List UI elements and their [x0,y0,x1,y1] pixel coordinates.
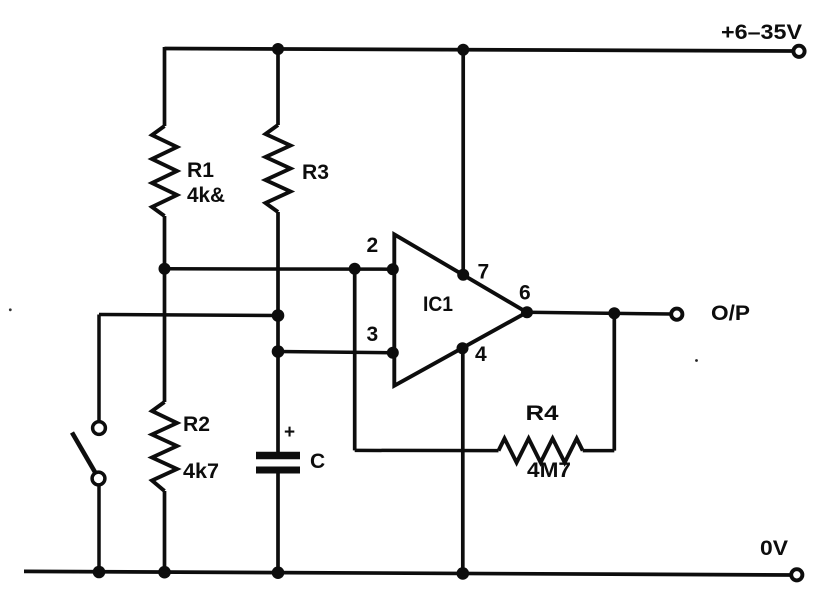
junction pin7 at IC1 [457,269,469,281]
resistor R4 [499,439,583,463]
wire R1 top lead [163,47,167,126]
wire R2 bottom lead [163,491,167,573]
resistor R1 [152,126,177,216]
wire node to pin3 row [276,316,280,352]
svg-text:4M7: 4M7 [527,459,571,482]
junction output R4 [608,307,620,319]
switch lever [72,433,96,474]
wire switch lower lead [97,485,101,573]
wire +V top rail [165,49,794,52]
switch upper contact [93,422,106,435]
junction bottom rail pin4 [457,567,470,580]
wire R4 branch vertical [353,269,357,451]
svg-text:4: 4 [475,343,487,366]
svg-text:O/P: O/P [711,302,750,325]
switch lower contact [92,472,105,485]
wire R4 left lead [355,449,499,453]
capacitor C plate bottom [256,467,300,474]
op-amp IC1 [394,234,527,385]
svg-text:+: + [284,422,295,443]
svg-text:3: 3 [367,323,379,346]
svg-text:+6–35V: +6–35V [721,21,802,44]
junction switch wire node [272,309,285,322]
wire C top lead [276,352,280,453]
wire R4 right lead [583,449,615,453]
junction pin2 R4 branch [349,263,361,275]
wire pin4 vertical [461,348,465,573]
wire switch top horizontal [99,315,278,316]
svg-text:IC1: IC1 [423,293,453,316]
terminal +6-35V [793,46,804,57]
svg-text:7: 7 [478,261,490,284]
resistor R2 [152,402,177,491]
svg-text:C: C [310,450,325,473]
junction top rail pin7 [457,44,469,56]
wire output horizontal [527,312,671,314]
wire R4 to output vertical [612,313,616,450]
svg-text:R2: R2 [183,413,210,436]
svg-text:6: 6 [519,282,531,305]
junction pin3 at IC1 [387,347,399,359]
svg-text:4k7: 4k7 [183,460,219,483]
junction pin2 at IC1 [387,263,399,275]
wire R2 top lead [163,269,167,402]
junction pin3 C column [272,345,285,358]
svg-text:4k&: 4k& [187,184,225,207]
junction node R1 R2 pin2 [159,263,171,275]
terminal O/P [671,309,682,320]
wire 0V bottom rail [24,571,793,575]
junction pin6 output [521,306,533,318]
wire C bottom lead [276,473,280,573]
junction bottom rail switch [93,566,106,579]
svg-text:2: 2 [367,234,379,257]
junction bottom rail C [272,566,285,579]
junction pin4 at IC1 [457,342,469,354]
svg-text:R1: R1 [187,159,214,182]
wire pin7 vertical [461,50,465,275]
resistor R3 [266,125,291,212]
wire R3 top lead [276,49,280,125]
svg-text:R4: R4 [526,402,559,425]
capacitor C plate top [256,452,300,460]
junction top rail R3 [272,43,284,55]
svg-text:0V: 0V [760,537,788,560]
junction bottom rail R2 [158,566,171,579]
svg-text:R3: R3 [302,161,329,184]
wire R1 bottom lead [163,216,167,269]
terminal 0V [791,569,802,580]
wire R3 bottom lead [276,212,280,315]
wire pin2 horizontal [165,267,393,271]
wire pin3 horizontal [278,352,393,353]
wire switch upper lead [97,315,101,422]
